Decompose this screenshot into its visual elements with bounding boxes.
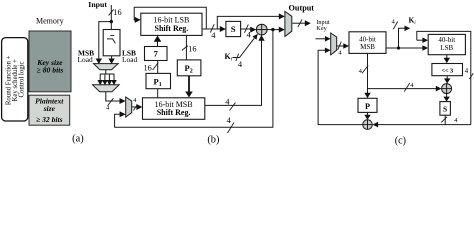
arrow LSB load down [108, 59, 114, 65]
svg-text:Round Function + Key schedule: Round Function + Key schedule + Control … [6, 54, 26, 105]
wire input key arrow [316, 38, 326, 40]
mux funnel upper [94, 64, 119, 70]
svg-text:Shift Reg.: Shift Reg. [155, 24, 189, 33]
mux funnel lower [93, 85, 120, 92]
svg-text:4: 4 [225, 97, 230, 107]
wires 4 drops with arrows [97, 74, 116, 85]
arrow Ki into xor [252, 34, 257, 40]
wire P2 to MSB reg thick [188, 76, 190, 92]
bus slash 4 LSB out [210, 24, 214, 32]
bus slash 4 right loop [469, 73, 473, 79]
node after xor [271, 28, 274, 31]
bus slash 4 mux output [133, 105, 137, 111]
svg-text:S: S [231, 24, 236, 34]
svg-text:4: 4 [465, 68, 469, 75]
wire mux output [132, 106, 137, 108]
xor key addition [256, 24, 267, 35]
svg-text:MSB: MSB [360, 43, 375, 51]
memory Plaintext size block [29, 95, 70, 125]
wire xor to mux [267, 29, 279, 31]
bus slash 16 on input [109, 9, 114, 15]
bus slash 4 after S [245, 24, 249, 32]
svg-text:Memory: Memory [36, 17, 64, 26]
register 16-bit LSB Shift Reg [141, 13, 202, 35]
arrow into output mux bottom [279, 27, 285, 33]
bus slash Ki [236, 54, 239, 61]
svg-text:Shift Reg.: Shift Reg. [157, 108, 191, 117]
wire LSB to rotate [446, 55, 448, 59]
wire MSB reg out up to xor [205, 40, 262, 105]
arrow into xor from below [258, 35, 264, 41]
svg-text:Load: Load [122, 55, 137, 64]
wire distributor bar [100, 73, 114, 75]
wire xor1c to S [446, 94, 448, 98]
xor2c [363, 120, 373, 130]
mux into MSB register [126, 97, 132, 117]
box rotate <<3 [432, 64, 463, 76]
bus slash 4 feedback [228, 123, 235, 134]
mux output [285, 11, 292, 36]
arrow into MSB register [136, 104, 142, 110]
node input junction [110, 20, 113, 23]
svg-text:4: 4 [211, 30, 216, 40]
wire rotate to xor1c [446, 76, 448, 80]
register 40-bit LSB [428, 34, 465, 54]
arrow MSB load down [96, 59, 102, 65]
svg-text:≥ 32 bits: ≥ 32 bits [36, 115, 63, 124]
box P [358, 98, 377, 112]
arrow into output mux top [279, 13, 285, 19]
svg-text:Key: Key [316, 25, 327, 32]
sbox S [226, 21, 241, 36]
wire output [292, 22, 305, 24]
wire bottom into xor2c [378, 124, 471, 126]
arrow P2 into MSB reg [185, 92, 193, 98]
svg-text:<< 3: << 3 [441, 67, 454, 74]
arrow loop into LSB register [135, 17, 141, 23]
wire funnel2 to mux [106, 92, 120, 101]
arrow up into LSB reg [154, 36, 162, 42]
svg-text:Output: Output [289, 4, 315, 13]
wire Ki diagonal [233, 38, 255, 57]
bus slash 4 funnel out [108, 98, 114, 105]
svg-text:(c): (c) [395, 135, 406, 146]
wire branch to MSB load path [99, 22, 112, 59]
wire branch to output mux [217, 16, 279, 29]
block Round Function + Key schedule + Control logic [2, 38, 28, 121]
node Ki tap [397, 46, 400, 49]
wire buffer to funnel [111, 56, 113, 59]
bus slash output [298, 19, 302, 27]
svg-text:16: 16 [188, 45, 196, 54]
arrow into mux lower input [120, 111, 126, 117]
wire junction to xor1c [368, 88, 437, 90]
wire funnel stem [105, 70, 107, 74]
svg-text:size: size [43, 104, 56, 113]
wire P1 to MSB reg [157, 89, 159, 98]
wire LSB feedback loop [134, 7, 206, 29]
wire S down to bottom [444, 115, 446, 124]
arrow into mux upper input [120, 98, 126, 104]
wire Ki output [399, 28, 406, 48]
xor1c [442, 84, 452, 94]
svg-text:4: 4 [227, 115, 232, 125]
mux key input [331, 33, 337, 55]
svg-text:P: P [365, 102, 370, 111]
arrow on wire into S [220, 26, 226, 32]
svg-text:(b): (b) [207, 134, 219, 145]
register 40-bit MSB [349, 32, 386, 54]
wire input vertical [110, 5, 112, 30]
memory Key size block [29, 31, 71, 92]
glyph inside buffer box [107, 36, 115, 44]
box 7 [145, 47, 168, 61]
svg-text:S: S [443, 105, 447, 114]
svg-text:Input: Input [88, 0, 107, 9]
svg-text:Load: Load [78, 55, 93, 64]
bus slash 4 MSB out [230, 103, 236, 111]
svg-text:≥ 80 bits: ≥ 80 bits [36, 66, 63, 75]
wire feedback bottom [115, 30, 273, 128]
svg-text:16: 16 [144, 64, 152, 73]
wire MSB to LSB [386, 47, 424, 49]
wire mux to MSB [337, 45, 345, 47]
wire P to xor2c [367, 112, 369, 115]
wire MSB down [367, 53, 369, 93]
svg-text:40-bit: 40-bit [438, 36, 455, 44]
arrow into xor1b [250, 27, 256, 33]
svg-text:16: 16 [113, 8, 121, 17]
register input buffer box [103, 30, 120, 56]
wire LSB output [202, 28, 252, 30]
wire LSB loop [417, 31, 471, 124]
svg-text:7: 7 [154, 49, 159, 59]
svg-text:(a): (a) [72, 134, 84, 145]
box P2 [177, 60, 201, 76]
box P1 [146, 73, 171, 88]
register 16-bit MSB Shift Reg [143, 98, 205, 120]
wire LSB reg to P2 with slash 16 [185, 35, 187, 60]
svg-text:LSB: LSB [440, 44, 453, 52]
wire 7 to P1 with slash 16 [157, 61, 159, 74]
wire xor2c feedback to mux [318, 50, 363, 124]
sbox S c [440, 102, 451, 116]
wire 7 to LSB reg [157, 41, 159, 47]
arrow output [305, 20, 311, 26]
